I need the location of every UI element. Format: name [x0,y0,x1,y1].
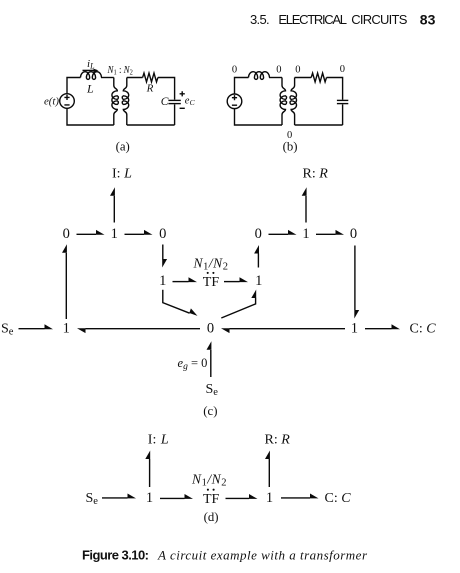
wire resistor to capacitor [158,78,175,100]
wire source top to inductor [67,78,81,94]
svg-text:R: R [146,83,154,95]
bond TF to 1 (d) [226,494,258,499]
transformer secondary winding [122,78,128,126]
svg-text:N1 : N2: N1 : N2 [107,64,134,76]
capacitor (b) [337,100,348,103]
TF dots [207,272,215,274]
bond 0 to 1 row2-left [77,230,105,235]
caption: Figure 3.10 [82,548,368,563]
svg-text:0: 0 [255,226,262,242]
bond 0 elbow up to TF-right-1 [221,290,256,319]
inductor L [81,72,102,80]
bond left 0 down to TF 1 [162,245,167,268]
TF dots (d) [207,489,215,491]
svg-text:eC: eC [185,96,196,107]
bottom wire right loop [127,124,175,126]
bond 1 to C (d) [281,494,319,499]
svg-text:R: R: R: R [265,433,291,448]
voltage source (b) [227,94,242,109]
svg-text:(c): (c) [203,404,217,418]
svg-text:0: 0 [276,65,281,76]
bond TF-left-1 elbow down to 0 [163,290,198,316]
bond Se-ground up to 0 [207,341,212,377]
bond 1 to TF (d) [160,494,193,499]
svg-text:1: 1 [302,226,309,242]
svg-text:CIRCUITS: CIRCUITS [351,12,407,27]
bond 1 to R:R [302,187,307,222]
bond TF 1 up to right 0 [254,245,259,268]
header section text [250,12,436,28]
svg-text:1: 1 [63,321,70,337]
wire inductor to transformer (b) [269,77,282,79]
svg-text:1: 1 [146,490,153,506]
svg-text:0: 0 [207,321,214,337]
svg-text:1: 1 [255,273,262,289]
bond 1 to TF [173,277,198,282]
svg-text:0: 0 [340,64,345,75]
svg-text:1: 1 [159,273,166,289]
svg-text:eg = 0: eg = 0 [178,356,208,372]
svg-text:0: 0 [295,65,300,76]
svg-text:(a): (a) [116,140,130,154]
wire capacitor down (b) [342,104,344,125]
svg-text:0: 0 [350,226,357,242]
resistor (b) [311,73,326,82]
svg-text:I: L: I: L [148,433,169,448]
bond Se to 1 (d) [102,494,136,499]
svg-text:1: 1 [111,226,118,242]
bond 1 to 0 row2-left [125,230,153,235]
label + [180,91,185,96]
svg-text:(b): (b) [283,140,298,154]
bond 1 to I:L (d) [145,451,150,488]
bond TF to 1 [224,277,248,282]
wire transformer to resistor (b) [295,77,312,79]
bond bottom-left 1 up to 0 [62,244,67,319]
svg-text:0: 0 [159,226,166,242]
svg-text:C: C [161,96,169,108]
transformer secondary (b) [290,78,296,126]
capacitor C plates [168,100,180,103]
inductor (b) [249,72,270,80]
voltage source e(t) [60,94,75,109]
svg-text:C: C: C: C [325,491,352,506]
transformer primary winding [112,78,118,126]
svg-text:Figure 3.10:: Figure 3.10: [82,548,149,563]
svg-text:I: L: I: L [112,167,132,182]
bond right-end 0 down to 1 [354,246,359,319]
bond right 1 to 0 (long) [221,328,345,333]
svg-text:1: 1 [266,490,273,506]
bond 0 to 1 row2-right [269,230,297,235]
wire inductor to transformer [101,77,114,79]
svg-text:A circuit example with a trans: A circuit example with a transformer [157,548,368,563]
svg-text:ELECTRICAL: ELECTRICAL [278,12,347,27]
wire source top to inductor (b) [235,78,249,95]
wire resistor to capacitor (b) [327,78,343,100]
bottom wire left loop [67,108,114,125]
wire capacitor down [174,104,176,125]
bond 1 to 0 row2-right [316,230,344,235]
bond 1 to I:L [110,187,115,222]
bond 0 to bottom-left 1 (long) [77,328,200,333]
svg-text:0: 0 [232,65,237,76]
svg-text:83: 83 [420,12,436,28]
svg-text:TF: TF [203,492,220,507]
svg-text:R: R: R: R [303,167,329,182]
svg-text:C: C: C: C [410,322,437,337]
svg-text:3.5.: 3.5. [250,12,270,27]
label iL current arrow [83,69,99,73]
svg-text:TF: TF [203,275,220,290]
label minus [180,107,185,109]
bond Se to 1 [19,324,54,329]
svg-text:(d): (d) [204,510,219,524]
resistor R [143,73,158,82]
svg-text:0: 0 [63,226,70,242]
bottom wire right loop (b) [295,124,343,126]
bottom wire left loop (b) [235,109,283,125]
transformer primary (b) [280,78,286,126]
bond 1 to R:R (d) [265,451,270,488]
svg-text:1: 1 [351,321,358,337]
svg-text:L: L [86,82,94,96]
svg-text:e(t): e(t) [44,95,59,107]
wire transformer to resistor [127,77,143,79]
bond 1 to C [365,324,400,329]
